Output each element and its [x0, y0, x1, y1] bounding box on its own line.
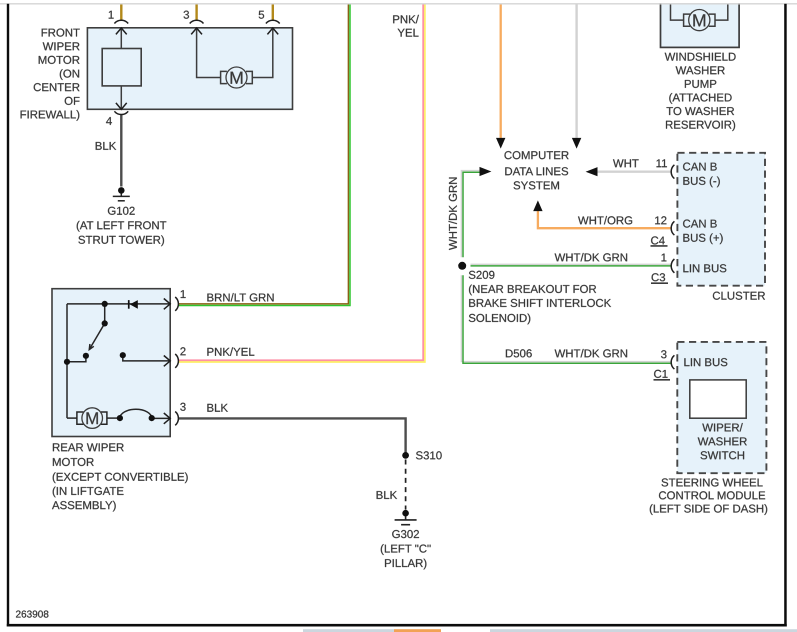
label WHT/DK GRN upper: [555, 253, 628, 261]
bottom ui strip orange: [394, 629, 441, 632]
bottom ui strip gray-blue right: [490, 629, 797, 632]
bottom ui strip gray-blue left: [303, 629, 394, 632]
wire WHT/DK GRN branch S209 to cluster pin1 (green part): [471, 265, 671, 267]
rear dot2 to pin3 wire: [152, 417, 170, 419]
label WHT/DK GRN rotated: [449, 178, 457, 251]
rear motor to dot wire: [107, 417, 120, 419]
rear motor wire from left vertical: [67, 417, 77, 419]
white mask above top rule: [0, 0, 797, 3]
pin arrow up front pin5: [267, 28, 278, 34]
connector arc cluster pin1: [671, 259, 674, 273]
pin arrow up front pin1: [116, 28, 127, 34]
wire WHT/DK GRN branch S209 to cluster pin1 (white part): [471, 263, 671, 265]
rear switch blade arrowhead: [89, 344, 94, 350]
front wiper motor box: [87, 28, 292, 110]
label cluster pins: [683, 163, 726, 273]
wire BLK rear wiper pin3 to S310: [179, 418, 406, 453]
pump wire right: [715, 4, 728, 20]
wire pin5 front wiper (DK YEL): [272, 4, 274, 20]
wire BLK dashed S310 to G302: [405, 460, 407, 510]
rear motor M circle: [82, 408, 103, 429]
label computer data lines system: [505, 151, 569, 189]
connector C3: [652, 273, 666, 281]
rear pin2 stub: [123, 355, 170, 361]
top gray rule: [0, 3, 797, 5]
front motor right bracket: [246, 71, 252, 83]
pump motor right bracket: [709, 14, 715, 26]
label PNK/YEL: [207, 347, 254, 355]
pin number 3 steering: [661, 350, 666, 358]
pump wire left: [671, 4, 684, 20]
rear switch vertical from top junction: [104, 304, 106, 324]
wire PNK/YEL rear wiper pin2: [179, 4, 424, 360]
label BLK g102: [96, 142, 117, 150]
label BLK g302: [377, 491, 398, 499]
pump motor M circle: [689, 10, 710, 31]
label windshield washer pump: [665, 53, 736, 131]
pump motor left bracket: [684, 14, 690, 26]
pin numbers front wiper: [106, 11, 264, 125]
connector arc front pin1: [114, 20, 128, 23]
front wiper motor inner rect: [102, 49, 141, 86]
label steering wheel control module: [650, 478, 767, 515]
rear box left vertical: [66, 304, 68, 418]
wire WHT/DK GRN main run lower segment (green part): [463, 275, 671, 363]
wire WHT vertical into computer data lines: [575, 4, 577, 138]
label BRN/LT GRN: [207, 293, 273, 301]
right black border: [784, 4, 787, 627]
pin arrow right rear pin1: [164, 299, 170, 310]
rear motor left bracket: [77, 412, 84, 424]
label WHT: [613, 159, 639, 167]
rear hump arc: [120, 409, 152, 418]
wire WHT/DK GRN main run upper segment (white part): [461, 171, 479, 258]
label G302: [381, 530, 431, 569]
connector arc rear pin2: [175, 354, 178, 368]
connector arc steering pin3: [671, 355, 674, 369]
label front wiper motor: [21, 29, 80, 121]
arrow down WHT into computer data lines: [572, 138, 581, 149]
ground G102: [113, 193, 130, 201]
wire WHT/ORG vertical into computer data lines: [500, 4, 502, 138]
label G102: [77, 207, 167, 246]
wire WHT cluster pin11 to computer data lines: [598, 170, 671, 172]
connector C4: [651, 236, 665, 244]
label D506: [506, 349, 532, 357]
rear switch blade diagonal: [89, 323, 104, 349]
wire WHT/ORG cluster pin12 to computer data lines: [538, 211, 671, 228]
pin arrow down front pin4: [116, 103, 127, 109]
pin number 1 cluster: [662, 254, 667, 262]
pin arrow right rear pin2: [164, 356, 170, 367]
arrow right WHT/DK GRN into computer data lines: [480, 167, 492, 176]
ground G302: [395, 516, 417, 525]
connector arc rear pin3: [175, 412, 178, 426]
wiper/washer switch inner rect: [690, 380, 746, 418]
cluster box (dashed): [677, 153, 765, 286]
label PNK/YEL top: [393, 15, 419, 37]
pin arrow right rear pin3: [164, 413, 170, 424]
wire pin3 front wiper (DK YEL): [195, 4, 197, 20]
connector arc cluster pin11: [671, 165, 674, 179]
arrow left WHT into computer data lines: [586, 167, 598, 176]
connector arc front pin4: [114, 111, 128, 114]
front motor M1 circle: [226, 67, 247, 88]
rear wiper motor box: [52, 289, 170, 437]
connector arc rear pin1: [175, 297, 178, 311]
rear motor right bracket: [101, 412, 107, 424]
steering wheel control module box (dashed): [677, 342, 766, 473]
left black border: [7, 4, 9, 627]
pin arrow up front pin3: [191, 28, 202, 34]
bottom black border: [7, 624, 787, 627]
label CLUSTER: [713, 292, 765, 300]
wire shaft pin1 arrow to inner rect: [120, 29, 122, 49]
arrow down WHT/ORG into computer data lines: [496, 138, 505, 149]
rear diode D1: [128, 300, 138, 309]
pin number 12 cluster: [655, 216, 666, 224]
wire pin1 front wiper (DK YEL): [120, 4, 122, 20]
splice dot S209: [458, 262, 466, 270]
connector arc front pin3: [190, 20, 204, 23]
connector C1: [654, 370, 667, 378]
connector arc cluster pin12: [671, 221, 674, 235]
label WHT/ORG: [578, 216, 632, 224]
rear box top wire to pin1: [67, 303, 170, 305]
wire WHT/DK GRN main run upper segment (green part): [463, 172, 480, 257]
label S310: [416, 451, 442, 459]
wire BRN/LT GRN rear wiper pin1: [179, 4, 349, 304]
wire shaft pin3 to motor level: [197, 29, 221, 78]
rear switch throw stub: [67, 356, 86, 362]
connector arc front pin5: [266, 20, 280, 23]
label S209: [469, 271, 611, 325]
wire shaft pin5 to motor level: [252, 29, 272, 78]
windshield washer pump box: [661, 0, 740, 47]
diagram number: [16, 611, 48, 618]
splice dot S310: [402, 452, 409, 459]
arrow up WHT/ORG into computer data lines: [533, 200, 542, 211]
pin numbers rear wiper: [180, 290, 185, 411]
label WHT/DK GRN lower: [555, 349, 628, 357]
label wiper/washer switch: [698, 423, 747, 459]
wire WHT/DK GRN main run lower segment (white part): [461, 275, 670, 361]
wire inner rect to pin4 arrow: [120, 86, 122, 109]
label BLK rear: [207, 404, 228, 412]
wire BLK front wiper pin4 to G102: [120, 115, 122, 187]
front motor left bracket: [221, 71, 227, 83]
pin number 11 cluster: [657, 159, 667, 167]
rear internal junction dots: [64, 301, 155, 421]
label LIN BUS steering: [684, 358, 727, 366]
label rear wiper motor: [52, 443, 188, 511]
